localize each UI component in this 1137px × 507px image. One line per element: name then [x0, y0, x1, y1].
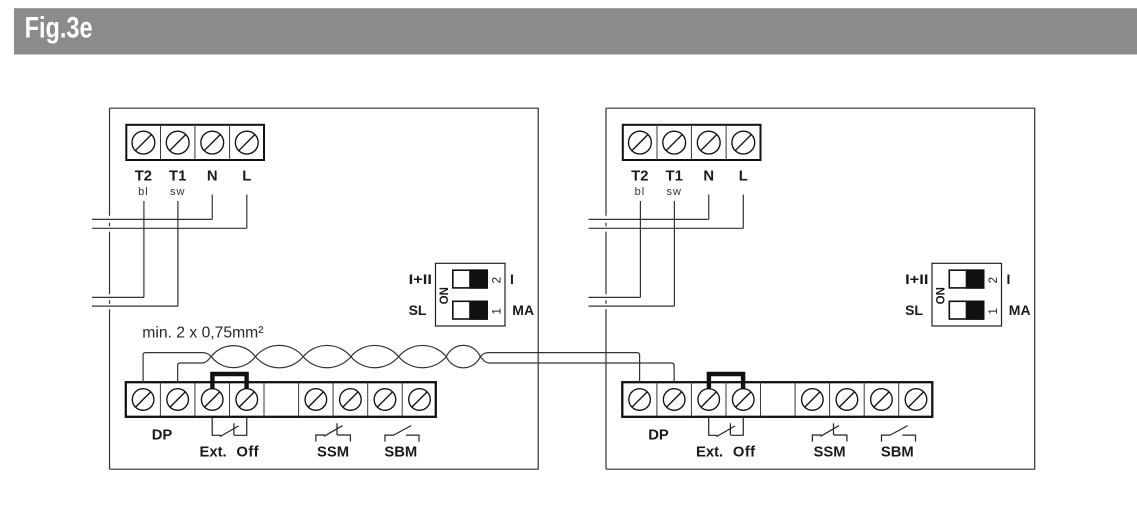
svg-text:min. 2 x 0,75mm²: min. 2 x 0,75mm² — [142, 324, 263, 341]
svg-text:Fig.3e: Fig.3e — [25, 12, 93, 45]
